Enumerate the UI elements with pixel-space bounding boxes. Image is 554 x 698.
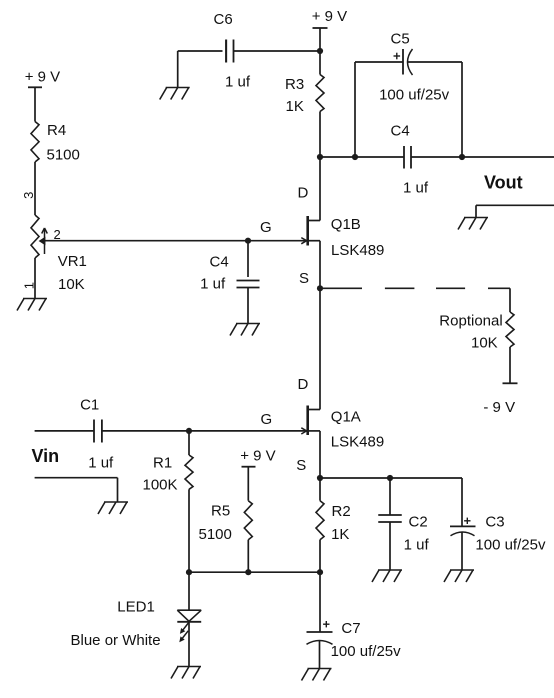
svg-text:1K: 1K xyxy=(331,526,349,543)
svg-text:1 uf: 1 uf xyxy=(404,536,430,553)
svg-text:C7: C7 xyxy=(341,620,360,637)
svg-text:C1: C1 xyxy=(80,397,99,414)
svg-text:LSK489: LSK489 xyxy=(331,434,384,451)
svg-text:+ 9 V: + 9 V xyxy=(312,8,347,25)
svg-text:LED1: LED1 xyxy=(117,599,155,616)
svg-text:LSK489: LSK489 xyxy=(331,242,384,259)
svg-text:R3: R3 xyxy=(285,76,304,93)
svg-text:R1: R1 xyxy=(153,455,172,472)
svg-text:S: S xyxy=(299,270,309,287)
svg-text:Blue or White: Blue or White xyxy=(71,632,161,649)
svg-text:+ 9 V: + 9 V xyxy=(240,447,275,464)
svg-text:- 9 V: - 9 V xyxy=(483,399,515,416)
svg-text:C5: C5 xyxy=(391,31,410,48)
svg-text:R4: R4 xyxy=(47,122,66,139)
svg-text:100 uf/25v: 100 uf/25v xyxy=(475,537,546,554)
svg-text:R2: R2 xyxy=(332,503,351,520)
svg-text:S: S xyxy=(296,457,306,474)
svg-text:1 uf: 1 uf xyxy=(88,455,114,472)
svg-text:G: G xyxy=(260,219,272,236)
svg-text:Q1A: Q1A xyxy=(331,408,361,425)
svg-text:2: 2 xyxy=(54,227,61,242)
svg-text:1: 1 xyxy=(21,282,36,289)
svg-text:C4: C4 xyxy=(210,254,229,271)
svg-text:Vout: Vout xyxy=(484,173,523,193)
svg-text:10K: 10K xyxy=(471,334,498,351)
svg-text:100 uf/25v: 100 uf/25v xyxy=(331,643,402,660)
svg-text:C3: C3 xyxy=(485,513,504,530)
svg-text:1K: 1K xyxy=(286,98,304,115)
svg-text:C2: C2 xyxy=(409,513,428,530)
svg-text:G: G xyxy=(261,411,273,428)
svg-text:5100: 5100 xyxy=(199,526,232,543)
svg-text:C6: C6 xyxy=(214,11,233,28)
svg-text:10K: 10K xyxy=(58,276,85,293)
svg-text:100K: 100K xyxy=(143,477,178,494)
svg-text:D: D xyxy=(298,184,309,201)
svg-text:+ 9 V: + 9 V xyxy=(25,69,60,86)
svg-text:Q1B: Q1B xyxy=(331,216,361,233)
svg-text:R5: R5 xyxy=(211,503,230,520)
svg-text:C4: C4 xyxy=(391,123,410,140)
svg-text:1 uf: 1 uf xyxy=(200,276,226,293)
svg-text:Vin: Vin xyxy=(32,446,60,466)
svg-text:3: 3 xyxy=(21,192,36,199)
svg-text:100 uf/25v: 100 uf/25v xyxy=(379,86,450,103)
svg-text:1 uf: 1 uf xyxy=(225,73,251,90)
svg-text:D: D xyxy=(298,376,309,393)
svg-text:5100: 5100 xyxy=(47,147,80,164)
svg-text:VR1: VR1 xyxy=(58,253,87,270)
svg-text:Roptional: Roptional xyxy=(439,313,502,330)
svg-text:1 uf: 1 uf xyxy=(403,180,429,197)
